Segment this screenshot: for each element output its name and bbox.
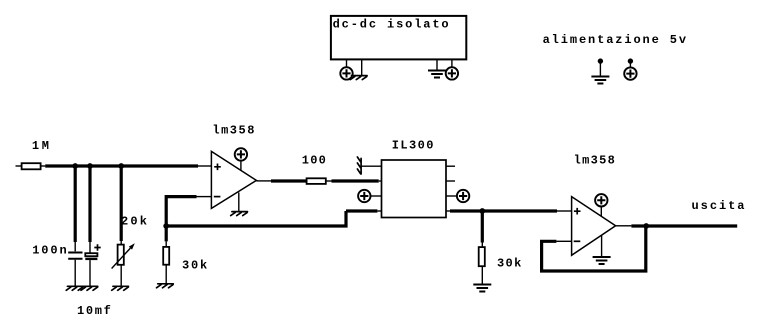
dc-dc converter module box: [331, 16, 466, 60]
dc-dc left V+ supply symbol: [340, 67, 352, 79]
U3 ground pin stub: [601, 235, 603, 257]
U1 V+ supply symbol: [235, 148, 247, 170]
chassis ground under dc-dc left: [350, 76, 367, 80]
optocoupler U2 IL300 body: [382, 160, 447, 218]
U2 right pin stub middle: [446, 180, 455, 182]
U2 right V+ supply symbol: [446, 190, 469, 202]
svg-text:20k: 20k: [121, 215, 147, 229]
wire node A down to C1: [74, 164, 77, 251]
label IL300 (U2): [392, 139, 434, 153]
label 30k (R2): [182, 258, 207, 272]
earth ground under dc-dc right: [428, 71, 446, 78]
wire input stub left of R1: [16, 165, 22, 167]
label 100n: [32, 244, 66, 258]
alimentazione ground terminal dot: [598, 58, 603, 76]
wire R1 to main node: [41, 165, 46, 167]
capacitor C2 10mf polarized: [85, 253, 97, 259]
wire U1 inverting input feedback path: [165, 195, 382, 228]
wire U1 output to R3: [256, 180, 306, 182]
junction node A (C1 tap): [72, 163, 78, 169]
svg-text:10mf: 10mf: [77, 304, 111, 318]
label 20k: [121, 215, 147, 229]
junction node B (C2 tap): [87, 163, 93, 169]
wire U2 output to op-amp U3 +: [446, 210, 572, 212]
label 30k (R4): [497, 256, 521, 270]
resistor R3 100 body: [307, 178, 326, 184]
alimentazione V+ supply symbol: [624, 67, 636, 79]
svg-text:IL300: IL300: [392, 139, 434, 153]
U3 V+ supply symbol: [595, 194, 607, 216]
wire main input net to op-amp U1 +: [45, 164, 211, 167]
earth ground symbol alimentazione: [591, 77, 609, 84]
junction node C (P1 tap): [118, 163, 124, 169]
U1 minus input marker: [214, 196, 221, 198]
chassis ground under C2: [81, 286, 98, 290]
earth ground under R4: [473, 285, 491, 292]
dc-dc pin stub right ground: [436, 59, 438, 70]
op-amp U1 lm358 triangle: [211, 151, 256, 208]
label 100 (R3): [302, 154, 326, 168]
wire R2 to ground: [165, 265, 167, 284]
alimentazione V+ terminal dot: [628, 58, 633, 67]
svg-text:uscita: uscita: [692, 199, 745, 213]
potentiometer P1 20k body: [118, 245, 124, 265]
dc-dc pin stub left ground: [361, 59, 363, 75]
wire U3 feedback loop: [540, 226, 646, 273]
wire node B down to C2: [88, 164, 91, 253]
resistor R1 1M body: [22, 163, 41, 169]
svg-text:100n: 100n: [32, 244, 66, 258]
junction node E (R4 tap): [479, 208, 485, 214]
svg-text:lm358: lm358: [212, 124, 254, 138]
wire C1 to ground: [74, 260, 76, 287]
label lm358 (U3): [574, 154, 615, 168]
label 10mf: [77, 304, 111, 318]
svg-text:lm358: lm358: [574, 154, 615, 168]
capacitor C1 100n plates: [68, 253, 82, 259]
wire node E down to R4: [481, 211, 484, 247]
dc-dc pin stub left V+: [346, 59, 348, 67]
U1 ground pin stub: [238, 193, 240, 212]
U2 left V+ supply symbol: [358, 190, 381, 202]
label alimentazione 5v: [543, 33, 687, 47]
svg-text:30k: 30k: [497, 256, 521, 270]
chassis ground under U1: [231, 212, 248, 216]
junction node F (output feedback tap): [643, 223, 649, 229]
chassis ground under R2: [157, 284, 174, 288]
U3 minus input marker: [574, 240, 581, 242]
U1 plus input marker: [214, 164, 221, 171]
earth ground under U3: [593, 257, 611, 264]
label uscita: [692, 199, 745, 213]
dc-dc pin stub right V+: [451, 59, 453, 67]
resistor R4 30k body: [479, 247, 485, 266]
U2 pin 1 stub with chassis mark: [357, 157, 381, 174]
svg-text:alimentazione 5v: alimentazione 5v: [543, 33, 687, 47]
svg-text:30k: 30k: [182, 258, 207, 272]
label lm358 (U1): [212, 124, 254, 138]
wire R3 to U2 pin: [326, 180, 382, 182]
resistor R2 30k body: [163, 247, 169, 265]
U3 plus input marker: [574, 208, 581, 215]
svg-text:1M: 1M: [32, 139, 49, 153]
junction node D (feedback / R2 tap): [163, 223, 169, 229]
label dc-dc isolato: [333, 18, 449, 32]
label 1M: [32, 139, 49, 153]
U2 right pin stub upper: [446, 165, 455, 167]
wire node C down to P1: [120, 164, 123, 244]
potentiometer P1 arrow: [112, 243, 135, 268]
wire P1 to ground: [120, 265, 122, 287]
chassis ground under P1: [112, 286, 129, 290]
wire U3 output uscita net: [616, 225, 738, 227]
wire node D down to R2: [165, 226, 168, 247]
wire C2 to ground: [89, 260, 91, 287]
wire R4 to ground: [481, 266, 483, 284]
svg-text:100: 100: [302, 154, 326, 168]
chassis ground under C1: [66, 286, 83, 290]
op-amp U3 lm358 triangle: [572, 197, 616, 256]
dc-dc right V+ supply symbol: [446, 67, 458, 79]
plus marker of C2: [94, 244, 100, 250]
